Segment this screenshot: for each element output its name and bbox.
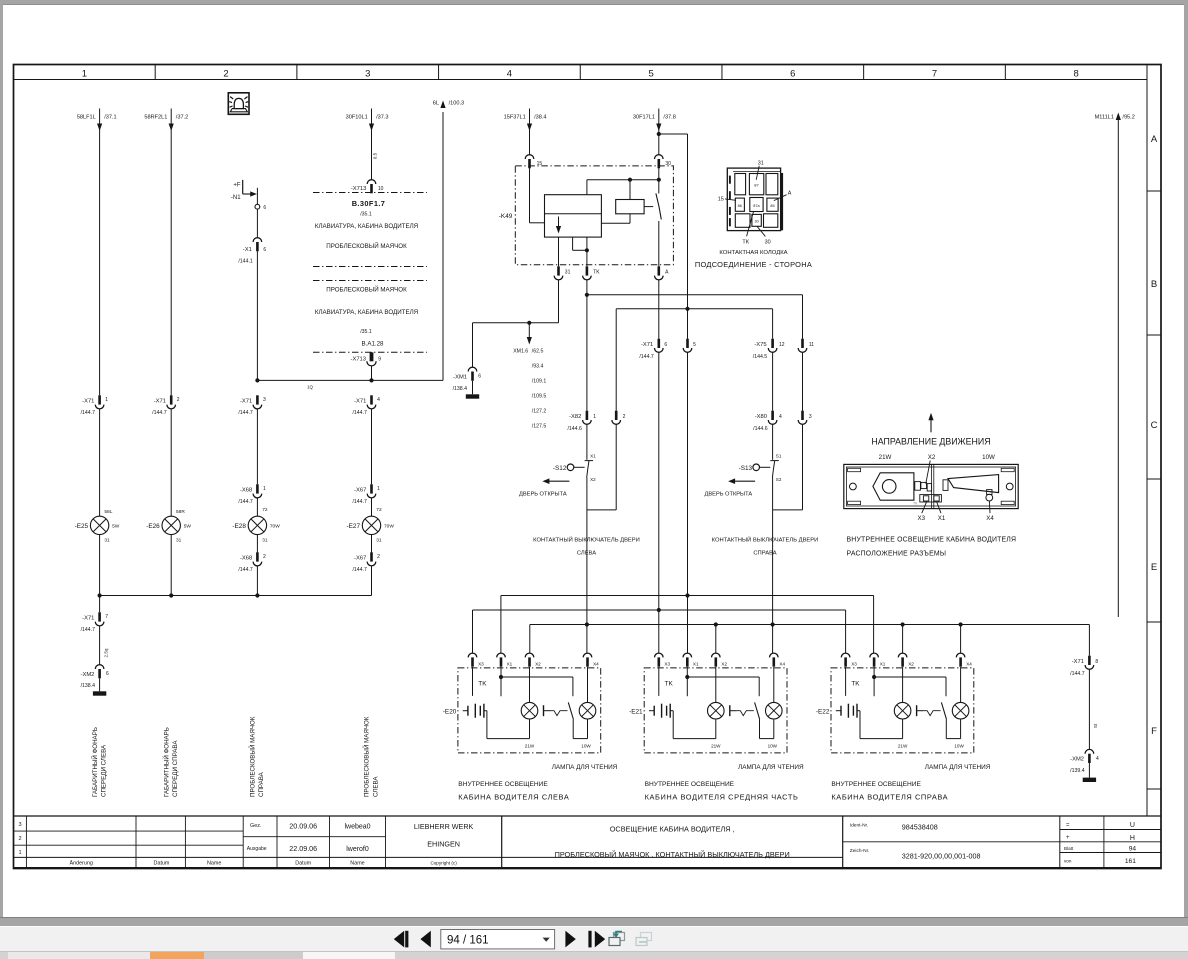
svg-text:31: 31 bbox=[262, 538, 268, 544]
svg-text:6L: 6L bbox=[433, 100, 439, 106]
svg-text:6: 6 bbox=[106, 671, 109, 677]
svg-text:ГАБАРИТНЫЙ ФОНАРЬ: ГАБАРИТНЫЙ ФОНАРЬ bbox=[162, 727, 170, 797]
svg-text:ГАБАРИТНЫЙ ФОНАРЬ: ГАБАРИТНЫЙ ФОНАРЬ bbox=[91, 727, 99, 797]
svg-text:10W: 10W bbox=[768, 744, 778, 749]
svg-text:58LF1L: 58LF1L bbox=[77, 114, 96, 120]
junction line C E22 X2 bbox=[901, 622, 905, 626]
label door open -S13 bbox=[705, 478, 756, 497]
ground -XM2 bbox=[93, 691, 106, 695]
svg-text:B: B bbox=[1151, 279, 1157, 290]
-E21 connector X4 bbox=[770, 653, 786, 667]
-E21 junction X1 bbox=[685, 675, 689, 679]
connector -X713 pin 10 bbox=[351, 180, 384, 194]
svg-text:-E28: -E28 bbox=[232, 523, 246, 530]
fixture X3 X1 terminal block bbox=[913, 495, 941, 506]
wire pin15 to flasher bbox=[530, 168, 545, 223]
svg-text:/144.1: /144.1 bbox=[238, 258, 253, 264]
svg-text:-X68: -X68 bbox=[240, 556, 252, 562]
connector -XM2 pin 4 bbox=[1070, 749, 1099, 777]
node XM1.6 reference list bbox=[513, 324, 546, 430]
wire X75-12 to X80-4 bbox=[772, 352, 774, 410]
svg-text:/100.3: /100.3 bbox=[449, 100, 465, 106]
relay -K49 enclosure bbox=[515, 166, 673, 265]
-E21 connector X2 bbox=[712, 653, 728, 667]
toolbar controls bbox=[0, 926, 700, 952]
connector -X67 pin 2 bbox=[352, 552, 380, 595]
svg-text:Blatt: Blatt bbox=[1064, 846, 1074, 851]
svg-text:КАБИНА ВОДИТЕЛЯ СПРАВА: КАБИНА ВОДИТЕЛЯ СПРАВА bbox=[831, 793, 948, 802]
svg-text:/109.1: /109.1 bbox=[532, 379, 547, 385]
connector -XM2 pin 6 bbox=[81, 665, 109, 692]
junction TK under coil bbox=[585, 248, 589, 252]
svg-text:85: 85 bbox=[770, 204, 774, 208]
svg-text:СПЕРЕДИ СЛЕВА: СПЕРЕДИ СЛЕВА bbox=[100, 744, 107, 797]
svg-text:6: 6 bbox=[664, 342, 667, 348]
block B.30F1.7 keyboard cab boundary bbox=[313, 193, 427, 267]
label door contact switch left bbox=[533, 536, 640, 557]
svg-text:ПРОБЛЕСКОВЫЙ МАЯЧОК: ПРОБЛЕСКОВЫЙ МАЯЧОК bbox=[249, 716, 257, 797]
svg-text:M111L1: M111L1 bbox=[1095, 114, 1114, 120]
junction XM1.6 branch bbox=[527, 321, 531, 325]
label marker lamp front right bbox=[162, 727, 179, 797]
svg-text:КОНТАКТНЫЙ ВЫКЛЮЧАТЕЛЬ ДВЕРИ: КОНТАКТНЫЙ ВЫКЛЮЧАТЕЛЬ ДВЕРИ bbox=[712, 536, 819, 544]
svg-text:-X82: -X82 bbox=[569, 414, 581, 420]
wire line B X3 supply bbox=[473, 610, 846, 654]
ground -XM2 right bbox=[1083, 778, 1096, 782]
wire line C ground bbox=[530, 625, 1090, 654]
svg-text:C: C bbox=[1151, 420, 1158, 431]
svg-text:10W: 10W bbox=[982, 454, 995, 461]
wire S13 to line C and E21 X4 bbox=[772, 510, 774, 654]
connector -XM1 pin 6 bbox=[453, 367, 482, 394]
svg-text:58R: 58R bbox=[176, 509, 185, 515]
socket pin label 31 bbox=[756, 160, 764, 180]
svg-text:7: 7 bbox=[932, 69, 937, 80]
svg-text:-XM2: -XM2 bbox=[1070, 757, 1084, 763]
svg-text:X3: X3 bbox=[851, 662, 857, 667]
svg-text:+F: +F bbox=[233, 182, 241, 188]
svg-text:8: 8 bbox=[1074, 69, 1079, 80]
wire relay body to pin 31 bbox=[558, 237, 560, 266]
-E21 lamp 21W bbox=[708, 667, 725, 749]
wire X71-3 to X68 bbox=[256, 409, 258, 484]
svg-text:/144.7: /144.7 bbox=[352, 499, 367, 505]
wire X75-11 to X80-3 bbox=[802, 352, 804, 410]
svg-text:TK: TK bbox=[913, 502, 918, 506]
svg-text:ВНУТРЕННЕЕ ОСВЕЩЕНИЕ КАБИНА ВО: ВНУТРЕННЕЕ ОСВЕЩЕНИЕ КАБИНА ВОДИТЕЛЯ bbox=[847, 536, 1017, 543]
node 6L to /100.3 riser bbox=[433, 100, 464, 380]
svg-text:U: U bbox=[1130, 822, 1135, 829]
label flashing beacon left bbox=[363, 716, 380, 797]
-E22 bottom rails bbox=[860, 738, 961, 740]
svg-text:21W: 21W bbox=[525, 744, 535, 749]
svg-text:X3: X3 bbox=[918, 515, 926, 522]
lamp -E28 72 70W bbox=[232, 498, 280, 552]
screw terminal 6 on N1 bbox=[255, 188, 266, 238]
svg-text:B.30F1.7: B.30F1.7 bbox=[352, 199, 386, 208]
svg-text:-X1: -X1 bbox=[243, 247, 252, 253]
svg-text:X3: X3 bbox=[664, 662, 670, 667]
svg-text:20.09.06: 20.09.06 bbox=[289, 822, 317, 831]
svg-text:B.A1.28: B.A1.28 bbox=[361, 341, 384, 348]
svg-text:5: 5 bbox=[648, 69, 653, 80]
svg-text:30: 30 bbox=[665, 161, 671, 167]
-E20 lamp 10W bbox=[579, 667, 596, 749]
wire 15F37L1 down bbox=[529, 109, 531, 156]
-E20 lamp 21W bbox=[521, 667, 538, 749]
fixture 10W reflector bbox=[943, 475, 999, 493]
node 15F37L1 from /38.4 bbox=[504, 114, 547, 131]
fixture terminal label X4 bbox=[986, 501, 994, 521]
svg-text:Ident-Nr.: Ident-Nr. bbox=[850, 823, 868, 829]
svg-text:30F17L1: 30F17L1 bbox=[633, 114, 655, 120]
svg-text:S1: S1 bbox=[776, 453, 782, 458]
svg-text:ВНУТРЕННЕЕ ОСВЕЩЕНИЕ: ВНУТРЕННЕЕ ОСВЕЩЕНИЕ bbox=[831, 781, 921, 788]
svg-text:+: + bbox=[1066, 835, 1070, 841]
svg-text:Name: Name bbox=[350, 861, 364, 867]
interior light fixture outline bbox=[844, 464, 1018, 508]
connector -X68 pin 2 bbox=[238, 552, 266, 595]
svg-text:/95.2: /95.2 bbox=[1122, 114, 1134, 120]
svg-text:/144.6: /144.6 bbox=[567, 426, 582, 432]
label interior light -E22 bbox=[831, 781, 948, 801]
svg-text:21W: 21W bbox=[711, 744, 721, 749]
-E22 connector X1 bbox=[870, 653, 886, 667]
svg-text:/37.2: /37.2 bbox=[176, 114, 188, 120]
wire M111L1 bbox=[1117, 119, 1119, 617]
svg-text:КЛАВИАТУРА, КАБИНА ВОДИТЕЛЯ: КЛАВИАТУРА, КАБИНА ВОДИТЕЛЯ bbox=[315, 309, 418, 316]
svg-text:22.09.06: 22.09.06 bbox=[289, 844, 317, 853]
-E22 lamp 10W bbox=[952, 667, 969, 749]
svg-text:161: 161 bbox=[1125, 858, 1136, 865]
svg-text:-E25: -E25 bbox=[75, 523, 89, 530]
fixture lamp 10W label bbox=[982, 454, 995, 461]
fixture terminal label X1 bbox=[937, 502, 946, 522]
svg-text:ЛАМПА ДЛЯ ЧТЕНИЯ: ЛАМПА ДЛЯ ЧТЕНИЯ bbox=[925, 764, 991, 771]
connector -X75 pin 11 bbox=[798, 339, 814, 353]
K49 coil box (flasher) bbox=[545, 195, 602, 237]
svg-text:31: 31 bbox=[758, 160, 764, 166]
svg-text:EHINGEN: EHINGEN bbox=[427, 839, 460, 848]
svg-text:4: 4 bbox=[779, 414, 782, 420]
svg-text:15: 15 bbox=[718, 197, 724, 203]
svg-text:X1: X1 bbox=[590, 453, 596, 458]
wire 58LF1L down bbox=[99, 109, 101, 396]
svg-text:/144.7: /144.7 bbox=[639, 354, 654, 360]
svg-text:30: 30 bbox=[754, 220, 758, 224]
label reading lamp -E22 bbox=[925, 764, 991, 771]
wire bus to 6L riser bbox=[257, 380, 443, 389]
svg-text:X1: X1 bbox=[693, 662, 699, 667]
svg-text:11: 11 bbox=[809, 342, 814, 348]
svg-text:-E20: -E20 bbox=[443, 708, 457, 715]
svg-text:5W: 5W bbox=[112, 524, 120, 530]
junction coil top bbox=[628, 178, 632, 182]
svg-text:94: 94 bbox=[1129, 845, 1137, 852]
svg-text:H: H bbox=[1130, 835, 1135, 842]
svg-text:70W: 70W bbox=[384, 524, 394, 530]
wire X82-2 to X75-12 bbox=[616, 309, 772, 411]
svg-text:2: 2 bbox=[177, 397, 180, 403]
junction at X713-9 wire bbox=[369, 378, 373, 382]
svg-text:5W: 5W bbox=[184, 524, 192, 530]
K49 pin 30 bbox=[655, 155, 672, 169]
svg-text:7: 7 bbox=[105, 614, 108, 620]
wire E22 X2 tap bbox=[902, 625, 904, 654]
wire S12 to line C and E20 X4 bbox=[586, 510, 588, 654]
-E21 X3 stub bbox=[658, 667, 660, 696]
svg-text:von: von bbox=[1064, 858, 1072, 863]
svg-text:/144.7: /144.7 bbox=[238, 410, 253, 416]
wire lamp E26 to ground bus bbox=[170, 535, 172, 596]
svg-text:15: 15 bbox=[537, 161, 543, 167]
svg-text:-E27: -E27 bbox=[347, 523, 361, 530]
wire E22 X4 tap bbox=[960, 625, 962, 654]
svg-text:lwerof0: lwerof0 bbox=[346, 846, 369, 853]
svg-text:1: 1 bbox=[593, 414, 596, 420]
svg-text:86: 86 bbox=[738, 204, 742, 208]
svg-text:ПРОБЛЕСКОВЫЙ МАЯЧОК: ПРОБЛЕСКОВЫЙ МАЯЧОК bbox=[326, 242, 407, 250]
-E22 connector X3 bbox=[841, 653, 857, 667]
svg-text:/144.6: /144.6 bbox=[753, 426, 768, 432]
svg-text:Datum: Datum bbox=[295, 861, 311, 867]
svg-text:31: 31 bbox=[176, 538, 182, 544]
svg-text:0.5: 0.5 bbox=[373, 152, 378, 159]
wire branch 30F17L1 to X71-5 bbox=[659, 134, 688, 339]
svg-text:/37.3: /37.3 bbox=[376, 114, 388, 120]
connector -X71 pin 3 bbox=[238, 395, 266, 416]
svg-text:3281-920,00,00,001-008: 3281-920,00,00,001-008 bbox=[902, 852, 981, 861]
-E20 X1 wire and link bbox=[501, 667, 573, 696]
label interior light location bbox=[847, 536, 1017, 557]
svg-text:Änderung: Änderung bbox=[70, 860, 93, 867]
svg-text:21W: 21W bbox=[879, 454, 892, 461]
wire X71-2 to lamp E26 bbox=[170, 409, 172, 516]
ground -XM1 bbox=[466, 394, 479, 398]
svg-text:=: = bbox=[1066, 822, 1070, 828]
svg-text:Copyright (c): Copyright (c) bbox=[430, 860, 457, 865]
svg-text:/127.2: /127.2 bbox=[532, 409, 547, 415]
svg-text:СПЕРЕДИ СПРАВА: СПЕРЕДИ СПРАВА bbox=[172, 740, 179, 797]
svg-text:КАБИНА ВОДИТЕЛЯ СЛЕВА: КАБИНА ВОДИТЕЛЯ СЛЕВА bbox=[458, 793, 569, 802]
svg-text:/144.7: /144.7 bbox=[352, 410, 367, 416]
K49 pin 15 bbox=[525, 155, 542, 169]
wire 58RF2L1 down bbox=[170, 109, 172, 396]
svg-text:1: 1 bbox=[263, 486, 266, 492]
svg-text:ЛАМПА ДЛЯ ЧТЕНИЯ: ЛАМПА ДЛЯ ЧТЕНИЯ bbox=[738, 764, 804, 771]
svg-text:TK: TK bbox=[851, 681, 860, 688]
node 30F17L1 from /37.8 bbox=[633, 114, 676, 131]
lamp -E25 58L 5W bbox=[75, 509, 120, 544]
svg-text:-X71: -X71 bbox=[82, 616, 94, 622]
svg-text:X1: X1 bbox=[507, 662, 513, 667]
label door open -S12 bbox=[519, 478, 569, 497]
svg-text:КОНТАКТНАЯ КОЛОДКА: КОНТАКТНАЯ КОЛОДКА bbox=[719, 250, 787, 256]
svg-text:S2: S2 bbox=[776, 477, 782, 482]
svg-text:-E26: -E26 bbox=[146, 523, 160, 530]
svg-text:6: 6 bbox=[478, 374, 481, 380]
lamp unit -E22 interior light bbox=[816, 668, 974, 753]
svg-text:-XM2: -XM2 bbox=[81, 672, 95, 678]
svg-text:1: 1 bbox=[82, 69, 87, 80]
svg-text:X3: X3 bbox=[478, 662, 484, 667]
wire TK to X75-11 bbox=[587, 280, 803, 411]
label reading lamp -E20 bbox=[552, 764, 618, 771]
svg-text:/144.7: /144.7 bbox=[81, 410, 96, 416]
svg-text:/138.4: /138.4 bbox=[453, 386, 468, 392]
svg-text:3: 3 bbox=[263, 397, 266, 403]
svg-text:/144.7: /144.7 bbox=[238, 567, 253, 573]
svg-text:/144.7: /144.7 bbox=[238, 499, 253, 505]
svg-text:10W: 10W bbox=[954, 744, 964, 749]
svg-text:A: A bbox=[788, 190, 792, 196]
svg-text:1: 1 bbox=[105, 397, 108, 403]
socket pin label 30 bbox=[757, 227, 770, 246]
-E20 connector X2 bbox=[525, 653, 541, 667]
svg-text:X2: X2 bbox=[908, 662, 914, 667]
junction bus E25 bbox=[98, 593, 102, 597]
svg-text:/144.7: /144.7 bbox=[352, 567, 367, 573]
svg-text:/138.4: /138.4 bbox=[81, 683, 96, 689]
svg-text:4: 4 bbox=[377, 397, 380, 403]
svg-text:-X71: -X71 bbox=[240, 399, 252, 405]
svg-text:ДВЕРЬ ОТКРЫТА: ДВЕРЬ ОТКРЫТА bbox=[519, 492, 567, 498]
svg-text:ДВЕРЬ ОТКРЫТА: ДВЕРЬ ОТКРЫТА bbox=[705, 492, 753, 498]
svg-text:ПРОБЛЕСКОВЫЙ МАЯЧОК , КОНТАКТН: ПРОБЛЕСКОВЫЙ МАЯЧОК , КОНТАКТНЫЙ ВЫКЛЮЧА… bbox=[555, 850, 790, 859]
fixture terminal label X3 bbox=[918, 502, 927, 522]
junction line B K49-A bbox=[657, 608, 661, 612]
svg-text:2: 2 bbox=[623, 414, 626, 420]
socket pin label 15 bbox=[718, 197, 736, 203]
svg-text:72: 72 bbox=[376, 507, 382, 513]
node 58RF2L1 from /37.2 bbox=[144, 114, 188, 131]
svg-text:ПРОБЛЕСКОВЫЙ МАЯЧОК: ПРОБЛЕСКОВЫЙ МАЯЧОК bbox=[363, 716, 371, 797]
label reading lamp -E21 bbox=[738, 764, 804, 771]
svg-text:-S13: -S13 bbox=[739, 465, 753, 472]
ground bus wire 31 bbox=[100, 595, 372, 597]
svg-text:/35.1: /35.1 bbox=[360, 329, 372, 335]
connector -X1 pin 6 bbox=[238, 238, 266, 381]
lamp unit -E20 interior light bbox=[443, 668, 601, 753]
-E20 X3 stub bbox=[472, 667, 474, 696]
-E20 connector X4 bbox=[583, 653, 599, 667]
junction 30F17L1 at X75 link bbox=[685, 307, 689, 311]
svg-text:10W: 10W bbox=[581, 744, 591, 749]
svg-text:/38.4: /38.4 bbox=[534, 114, 546, 120]
svg-text:СПРАВА: СПРАВА bbox=[258, 771, 265, 797]
-E22 connector X4 bbox=[956, 653, 972, 667]
svg-text:70W: 70W bbox=[270, 524, 280, 530]
label interior light -E20 bbox=[458, 781, 569, 801]
svg-text:ОСВЕЩЕНИЕ КАБИНА ВОДИТЕЛЯ ,: ОСВЕЩЕНИЕ КАБИНА ВОДИТЕЛЯ , bbox=[610, 824, 735, 833]
lamp -E27 72 70W bbox=[347, 498, 395, 552]
-E21 lamp 10W bbox=[766, 667, 783, 749]
wire X71-4 to X67 bbox=[371, 409, 373, 484]
connector -X80 pin 3 bbox=[798, 411, 812, 425]
svg-text:TK: TK bbox=[478, 681, 487, 688]
wire X71-6 to line B bbox=[658, 352, 660, 653]
svg-text:30: 30 bbox=[765, 239, 771, 245]
switch -S13 door contact bbox=[739, 424, 803, 510]
svg-text:-X71: -X71 bbox=[641, 342, 653, 348]
terminal +F -N1 bbox=[231, 180, 257, 201]
connector -X82 pin 1 bbox=[567, 411, 596, 432]
title block bbox=[14, 816, 1162, 868]
node M111L1 from /95.2 bbox=[1095, 113, 1135, 121]
connector -X71 pin 1 bbox=[81, 395, 109, 416]
-E22 junction X1 bbox=[872, 675, 876, 679]
-E22 connector X2 bbox=[898, 653, 914, 667]
-E20 reading lamp switch bbox=[544, 702, 574, 738]
svg-text:/144.7: /144.7 bbox=[81, 627, 96, 633]
svg-text:СПРАВА: СПРАВА bbox=[753, 551, 776, 557]
wire lamp E25 to ground bus bbox=[99, 535, 101, 596]
svg-text:1: 1 bbox=[18, 850, 21, 856]
junction line C E21 X4 bbox=[771, 622, 775, 626]
svg-text:КЛАВИАТУРА, КАБИНА ВОДИТЕЛЯ: КЛАВИАТУРА, КАБИНА ВОДИТЕЛЯ bbox=[315, 223, 418, 230]
svg-text:X2: X2 bbox=[721, 662, 727, 667]
svg-text:A: A bbox=[1151, 134, 1158, 145]
-E22 lamp 21W bbox=[894, 667, 911, 749]
svg-text:X2: X2 bbox=[590, 477, 596, 482]
svg-text:F: F bbox=[1151, 726, 1157, 737]
svg-text:E: E bbox=[1151, 562, 1157, 573]
svg-text:6: 6 bbox=[263, 247, 266, 253]
connector -X71 pin 7 bbox=[81, 596, 109, 634]
svg-text:X1: X1 bbox=[938, 515, 946, 522]
svg-text:TK: TK bbox=[742, 239, 749, 245]
svg-text:/127.5: /127.5 bbox=[532, 424, 547, 430]
svg-text:984538408: 984538408 bbox=[902, 823, 938, 832]
switch -S12 door contact bbox=[553, 424, 616, 510]
-E21 reading lamp switch bbox=[730, 702, 760, 738]
lamp -E26 58R 5W bbox=[146, 509, 191, 544]
-E20 suppression capacitor TK bbox=[463, 704, 487, 739]
svg-text:31: 31 bbox=[565, 270, 571, 276]
svg-text:X4: X4 bbox=[966, 662, 972, 667]
wire 30F17L1 down bbox=[658, 109, 660, 156]
-E22 suppression capacitor TK bbox=[836, 704, 860, 739]
svg-text:/93.4: /93.4 bbox=[532, 364, 544, 370]
svg-text:/139.4: /139.4 bbox=[1070, 768, 1085, 774]
wire label St bbox=[1089, 669, 1098, 749]
K49 pin TK bbox=[583, 250, 601, 280]
svg-text:31: 31 bbox=[376, 538, 382, 544]
svg-text:Gez.: Gez. bbox=[250, 823, 261, 829]
svg-text:-X713: -X713 bbox=[351, 356, 366, 362]
svg-text:3: 3 bbox=[18, 822, 21, 828]
junction pin30 net bbox=[657, 178, 661, 182]
label contact socket bbox=[695, 250, 812, 269]
svg-text:10: 10 bbox=[378, 186, 384, 192]
svg-text:ЛАМПА ДЛЯ ЧТЕНИЯ: ЛАМПА ДЛЯ ЧТЕНИЯ bbox=[552, 764, 618, 771]
junction bus E28 bbox=[255, 593, 259, 597]
junction line C E21 X2 bbox=[714, 622, 718, 626]
label door contact switch right bbox=[712, 536, 819, 557]
-E20 connector X1 bbox=[497, 653, 513, 667]
svg-text:-X71: -X71 bbox=[82, 399, 94, 405]
svg-text:-X67: -X67 bbox=[354, 488, 366, 494]
K49 contact 30-A bbox=[644, 168, 661, 266]
label direction of travel bbox=[871, 413, 990, 447]
fixture terminal X2 label bbox=[926, 454, 936, 484]
svg-text:-X713: -X713 bbox=[351, 186, 366, 192]
svg-text:2: 2 bbox=[223, 69, 228, 80]
svg-text:/37.8: /37.8 bbox=[663, 114, 675, 120]
svg-text:3: 3 bbox=[365, 69, 370, 80]
label interior light -E21 bbox=[645, 781, 799, 801]
svg-text:lwebea0: lwebea0 bbox=[344, 824, 370, 831]
